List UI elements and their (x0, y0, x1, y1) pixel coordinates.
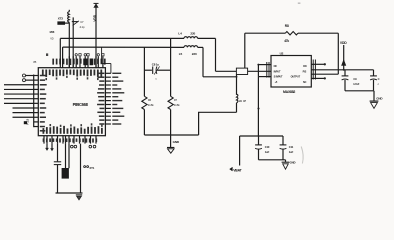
svg-text:MAX882: MAX882 (283, 90, 295, 94)
svg-text:GND: GND (376, 96, 383, 100)
svg-text:VDD: VDD (340, 41, 347, 45)
svg-text:INPUT: INPUT (274, 70, 281, 73)
svg-text:C8 1u: C8 1u (152, 62, 160, 66)
svg-text:VDD: VDD (93, 14, 97, 21)
svg-text:GND: GND (290, 160, 296, 164)
svg-text:220: 220 (192, 52, 197, 56)
svg-text:VBAT: VBAT (233, 168, 242, 172)
svg-text:1uF: 1uF (265, 150, 270, 154)
svg-text:M08: M08 (50, 30, 55, 34)
svg-text:34.8k: 34.8k (174, 103, 181, 107)
svg-text:4.1p: 4.1p (80, 25, 85, 29)
svg-text:VD: VD (50, 38, 54, 41)
svg-text:U2: U2 (280, 51, 284, 55)
svg-text:C11: C11 (289, 145, 294, 149)
svg-text:C10: C10 (265, 145, 270, 149)
svg-text:NC: NC (303, 81, 307, 84)
svg-text:4.7uF: 4.7uF (353, 82, 360, 86)
svg-text:L5: L5 (179, 52, 183, 56)
svg-text:GND: GND (173, 140, 180, 144)
svg-text:34.8k: 34.8k (148, 103, 155, 107)
svg-text:P89C668: P89C668 (73, 102, 89, 107)
svg-text:XT2: XT2 (58, 16, 64, 20)
svg-text:220: 220 (190, 31, 195, 35)
svg-text:S INPUT: S INPUT (274, 76, 283, 79)
svg-text:ON: ON (303, 65, 307, 68)
svg-text:P1.5: P1.5 (25, 119, 29, 125)
svg-text:XT1: XT1 (89, 166, 94, 170)
svg-text:R8: R8 (285, 24, 289, 28)
svg-text:P/S: P/S (303, 70, 307, 73)
svg-text:1uF: 1uF (289, 150, 294, 154)
svg-text:L4: L4 (178, 31, 182, 35)
svg-text:C: C (378, 77, 380, 81)
svg-text:47k: 47k (284, 39, 289, 43)
svg-text:OUTPUT: OUTPUT (291, 76, 301, 79)
svg-text:NC: NC (274, 65, 278, 68)
